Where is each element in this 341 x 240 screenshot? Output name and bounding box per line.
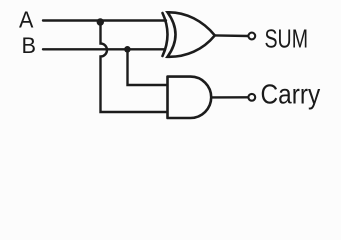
svg-text:SUM: SUM xyxy=(265,25,309,53)
terminal: Carry output circle xyxy=(248,94,255,101)
wire AND output to Carry terminal xyxy=(212,96,249,98)
xor gate U1 (SUM) xyxy=(163,12,215,57)
node: junction dot on B line xyxy=(124,46,131,53)
svg-text:Carry: Carry xyxy=(261,78,321,109)
terminal: SUM output circle xyxy=(248,33,255,40)
wire B branch: vertical down to AND upper input xyxy=(128,50,168,85)
wire A horizontal xyxy=(43,19,166,21)
wire XOR output to SUM terminal xyxy=(215,34,248,37)
wire A branch: vertical with hop over B, to AND lower input xyxy=(101,22,168,113)
and gate U2 (Carry) xyxy=(168,77,212,118)
svg-text:A: A xyxy=(19,7,34,33)
svg-text:B: B xyxy=(22,33,37,58)
node: junction dot on A line xyxy=(97,18,104,25)
wire B horizontal xyxy=(43,48,165,50)
